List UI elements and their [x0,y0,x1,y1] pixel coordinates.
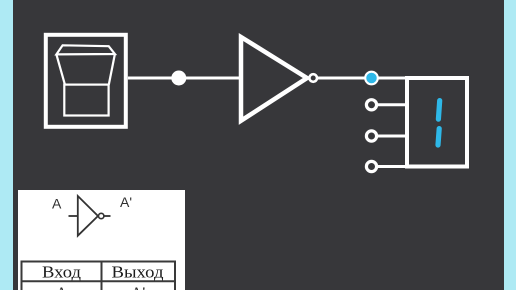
legend inverter bubble [99,213,104,218]
inverter bubble [309,74,317,82]
svg-text:A': A' [120,194,132,210]
switch rocker right side [109,54,115,85]
stub wire pin2 [372,103,408,106]
blue active node [365,72,378,85]
legend inverter input wire [69,215,79,217]
open terminal pin2 [366,100,376,110]
inverter gate U1 triangle [241,37,307,121]
svg-text:Выход: Выход [112,263,164,282]
svg-text:А: А [56,285,68,290]
open terminal pin4 [366,161,376,171]
svg-text:Вход: Вход [42,263,81,282]
wire gate to display [317,77,407,80]
legend inverter triangle [78,196,98,236]
legend panel [18,190,185,290]
wire switch to gate [128,77,241,80]
stub wire pin3 [372,135,408,138]
right pale blue strip [504,0,516,290]
stub wire pin4 [372,165,408,168]
table right border [174,261,176,290]
open terminal pin3 [366,131,376,141]
table header bottom rule [22,280,176,282]
table left border [21,261,23,290]
table column divider [101,261,103,290]
table top rule [22,261,176,263]
legend inverter output wire [104,215,110,217]
switch rocker glyph top face [56,45,115,54]
left pale blue strip [0,0,13,290]
display box DS1 [407,78,467,167]
digit segment lower [438,129,439,145]
switch rocker left side [56,54,65,84]
svg-text:A: A [52,196,62,212]
switch box SW1 [46,35,126,127]
node white junction [171,71,186,86]
svg-text:А': А' [131,285,146,290]
switch rocker lower face [64,85,108,116]
digit segment upper [438,101,439,120]
